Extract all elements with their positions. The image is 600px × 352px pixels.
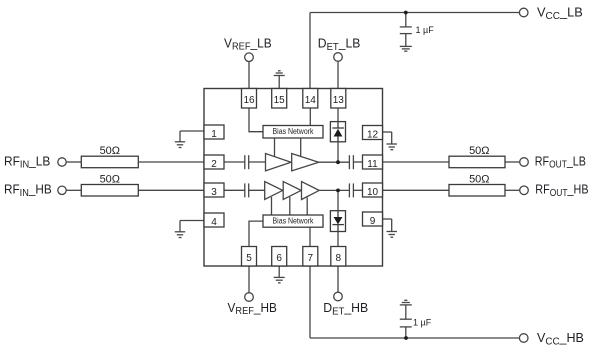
svg-text:50Ω: 50Ω bbox=[469, 173, 489, 185]
svg-text:1 µF: 1 µF bbox=[413, 317, 432, 327]
svg-text:DET_LB: DET_LB bbox=[318, 36, 361, 53]
svg-text:2: 2 bbox=[211, 159, 217, 170]
svg-text:RFIN_HB: RFIN_HB bbox=[4, 182, 52, 199]
svg-text:50Ω: 50Ω bbox=[469, 145, 489, 157]
svg-text:3: 3 bbox=[211, 187, 217, 198]
svg-text:50Ω: 50Ω bbox=[100, 145, 120, 157]
svg-text:15: 15 bbox=[274, 95, 286, 106]
svg-text:12: 12 bbox=[367, 130, 379, 141]
svg-text:6: 6 bbox=[276, 253, 282, 264]
svg-text:11: 11 bbox=[367, 159, 378, 170]
svg-text:5: 5 bbox=[246, 253, 252, 264]
svg-text:VREF_HB: VREF_HB bbox=[228, 300, 277, 317]
svg-text:10: 10 bbox=[367, 187, 379, 198]
svg-text:VCC_HB: VCC_HB bbox=[537, 331, 584, 347]
svg-text:1: 1 bbox=[211, 129, 217, 140]
svg-text:9: 9 bbox=[370, 216, 376, 227]
svg-text:8: 8 bbox=[336, 253, 342, 264]
svg-text:16: 16 bbox=[243, 95, 255, 106]
svg-text:RFOUT_HB: RFOUT_HB bbox=[535, 182, 588, 198]
svg-text:4: 4 bbox=[211, 217, 217, 228]
svg-text:VCC_LB: VCC_LB bbox=[537, 5, 583, 22]
svg-text:1 µF: 1 µF bbox=[416, 25, 435, 35]
svg-text:RFIN_LB: RFIN_LB bbox=[4, 154, 50, 171]
svg-text:13: 13 bbox=[333, 95, 345, 106]
svg-text:7: 7 bbox=[308, 253, 314, 264]
svg-text:Bias Network: Bias Network bbox=[273, 216, 314, 226]
svg-text:50Ω: 50Ω bbox=[100, 173, 120, 185]
svg-text:14: 14 bbox=[305, 95, 317, 106]
svg-text:DET_HB: DET_HB bbox=[323, 301, 368, 318]
svg-text:VREF_LB: VREF_LB bbox=[224, 36, 272, 53]
svg-text:Bias Network: Bias Network bbox=[273, 126, 314, 136]
svg-text:RFOUT_LB: RFOUT_LB bbox=[535, 153, 586, 169]
